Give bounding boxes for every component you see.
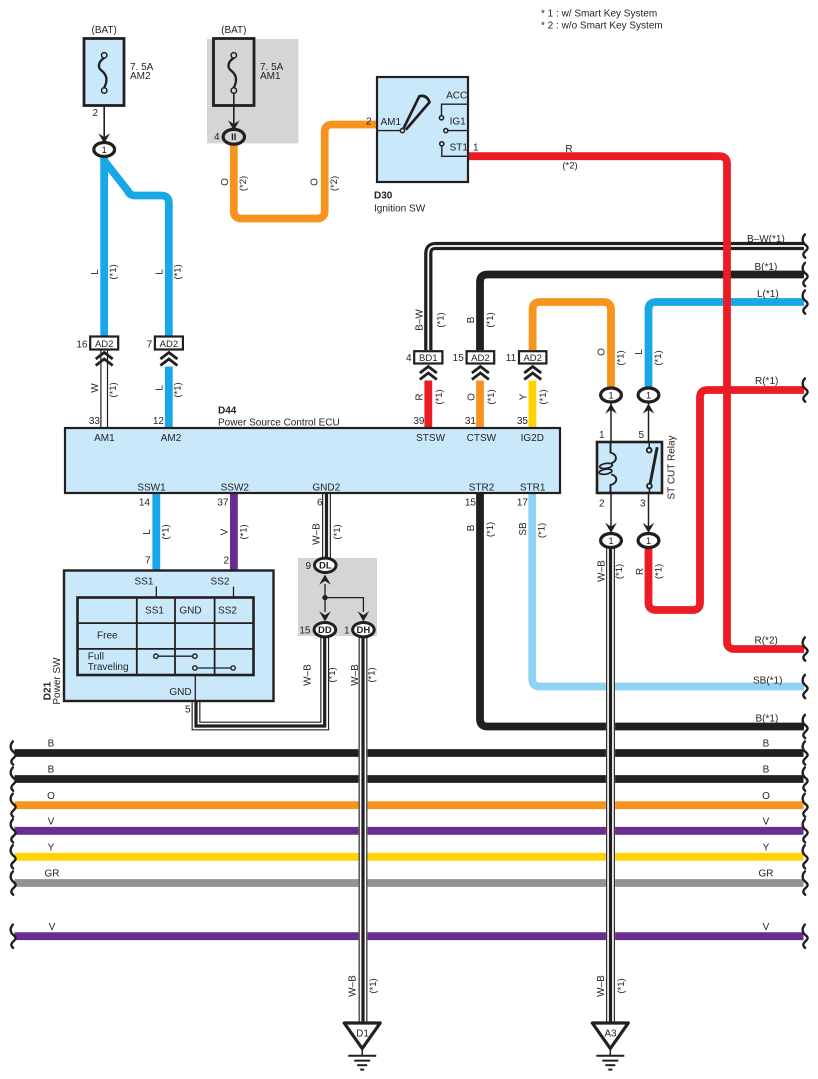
svg-text:* 1 : w/ Smart Key System: * 1 : w/ Smart Key System — [541, 8, 657, 19]
svg-text:B: B — [466, 524, 477, 531]
svg-text:AM1: AM1 — [260, 71, 281, 82]
arrow into connector DH — [358, 611, 370, 621]
wire L fork right branch to 7 AD2 — [105, 162, 169, 338]
svg-text:GR: GR — [45, 869, 60, 880]
connector 15 AD2 — [467, 351, 495, 363]
ignition switch lever (wedge) — [404, 96, 430, 130]
thin lead fuse AM1 to arrow — [233, 93, 235, 124]
svg-text:33: 33 — [89, 416, 101, 427]
continuation braces right edge (upper wires) — [803, 234, 808, 257]
thin branch junction to DH arrow — [325, 598, 363, 612]
svg-text:Y: Y — [519, 393, 530, 400]
svg-text:2: 2 — [599, 499, 605, 510]
svg-text:1: 1 — [608, 390, 613, 401]
connector 16 AD2 — [90, 337, 118, 350]
node oval 1 below relay pin 2 — [601, 534, 622, 548]
svg-text:1: 1 — [473, 143, 479, 154]
svg-text:V: V — [49, 922, 56, 933]
svg-text:1: 1 — [102, 145, 107, 156]
svg-text:V: V — [220, 528, 231, 535]
wire bus Y (row 5) — [15, 853, 804, 861]
contact line SS1-GND (full traveling) — [156, 655, 195, 657]
wire bus O (row 3) — [15, 801, 804, 809]
wire R from right edge R(*1) to oval below relay pin 3 — [649, 390, 805, 610]
fuse 7.5A AM1 box — [214, 39, 255, 106]
svg-text:D44: D44 — [218, 406, 237, 417]
svg-text:ST1: ST1 — [450, 143, 469, 154]
svg-text:1: 1 — [646, 536, 651, 547]
svg-text:(*1): (*1) — [485, 312, 496, 327]
svg-text:W–B: W–B — [303, 664, 314, 686]
wire W-B from connector DD down, left and up to power SW GND pin 5 — [192, 637, 328, 730]
svg-text:(*1): (*1) — [367, 667, 378, 682]
svg-text:7: 7 — [145, 556, 151, 567]
svg-text:W: W — [90, 383, 101, 393]
arrow into oval above relay pin 5 — [643, 404, 655, 414]
svg-text:SS2: SS2 — [211, 577, 230, 588]
svg-text:AD2: AD2 — [523, 353, 541, 364]
svg-text:L: L — [142, 529, 153, 535]
svg-text:SSW2: SSW2 — [221, 483, 250, 494]
svg-text:15: 15 — [453, 353, 465, 364]
svg-text:B: B — [48, 765, 55, 776]
svg-text:V: V — [48, 816, 55, 827]
svg-text:O: O — [220, 178, 231, 186]
svg-text:1: 1 — [599, 430, 605, 441]
svg-text:L: L — [155, 269, 166, 275]
svg-text:B–W(*1): B–W(*1) — [747, 234, 785, 245]
svg-text:(*1): (*1) — [161, 524, 172, 539]
wire bus V (row 7) — [15, 932, 804, 940]
thin branch junction to DD arrow — [324, 598, 326, 612]
svg-text:STSW: STSW — [416, 433, 445, 444]
fuse AM1 element — [229, 58, 237, 88]
wire bus V (row 4) — [15, 827, 804, 835]
fuse AM2 element — [99, 58, 107, 88]
svg-text:(*2): (*2) — [329, 176, 340, 191]
thin lead relay pin 2 to oval — [610, 492, 612, 533]
svg-text:B: B — [763, 765, 770, 776]
svg-text:Full: Full — [88, 652, 104, 663]
ECU D44 box — [65, 428, 560, 493]
svg-text:GND: GND — [179, 606, 201, 617]
connector 7 AD2 — [155, 337, 183, 350]
svg-text:CTSW: CTSW — [467, 433, 497, 444]
svg-text:31: 31 — [465, 416, 477, 427]
svg-text:O: O — [47, 791, 55, 802]
contact line GND-SS2 (full traveling) — [195, 667, 233, 669]
wire Y below AD2 11 to ECU pin 35 — [529, 381, 537, 430]
svg-text:(*1): (*1) — [654, 564, 665, 579]
svg-text:B: B — [466, 316, 477, 323]
svg-text:17: 17 — [517, 498, 529, 509]
svg-text:(*1): (*1) — [108, 264, 119, 279]
svg-text:AM2: AM2 — [130, 71, 151, 82]
thin lead DL arrow to junction — [324, 584, 326, 598]
arrow into oval below relay pin 3 — [643, 523, 655, 533]
ground symbol D1 — [344, 1023, 380, 1049]
power switch contact table — [78, 598, 254, 676]
svg-text:L: L — [90, 269, 101, 275]
svg-text:(BAT): (BAT) — [92, 25, 117, 36]
svg-text:(*1): (*1) — [108, 382, 119, 397]
thin lead relay pin 3 to oval — [648, 492, 650, 533]
svg-text:STR1: STR1 — [520, 483, 546, 494]
svg-text:ST CUT Relay: ST CUT Relay — [667, 435, 678, 499]
svg-text:V: V — [763, 922, 770, 933]
svg-text:D1: D1 — [356, 1029, 369, 1040]
wire V from ECU SSW2 pin 37 to power SW SS2 pin 2 — [230, 492, 238, 572]
wire R from ignition ST1 to right edge R(*2) — [468, 156, 805, 649]
svg-text:B: B — [763, 739, 770, 750]
power switch pin lead SS2 — [233, 587, 235, 599]
svg-text:(*1): (*1) — [614, 564, 625, 579]
svg-text:Traveling: Traveling — [88, 662, 129, 673]
svg-text:(*1): (*1) — [537, 523, 548, 538]
svg-text:* 2 : w/o Smart Key System: * 2 : w/o Smart Key System — [541, 21, 663, 32]
svg-text:R: R — [565, 144, 572, 155]
svg-text:AD2: AD2 — [95, 339, 113, 350]
svg-text:IG2D: IG2D — [521, 433, 544, 444]
svg-text:B(*1): B(*1) — [756, 714, 779, 725]
svg-text:(*1): (*1) — [173, 382, 184, 397]
svg-text:SS1: SS1 — [145, 606, 164, 617]
svg-text:(BAT): (BAT) — [221, 25, 246, 36]
thin lead oval to relay pin 1 — [610, 402, 612, 443]
svg-text:3: 3 — [640, 499, 646, 510]
svg-text:2: 2 — [366, 117, 372, 128]
svg-text:R: R — [415, 393, 426, 400]
svg-text:O: O — [762, 791, 770, 802]
node oval 1 above relay pin 5 — [638, 388, 659, 402]
svg-text:(*1): (*1) — [368, 978, 379, 993]
svg-text:W–B: W–B — [596, 975, 607, 997]
svg-text:B(*1): B(*1) — [755, 262, 778, 273]
svg-text:A3: A3 — [604, 1029, 617, 1040]
wire bus B (row 1) — [15, 749, 804, 757]
ignition contact IG1 — [448, 130, 468, 132]
svg-text:DD: DD — [318, 625, 332, 636]
svg-text:V: V — [763, 816, 770, 827]
wire W-B from ECU GND2 pin 6 to connector DL — [323, 492, 331, 559]
connector 11 AD2 — [519, 351, 546, 363]
svg-text:2: 2 — [92, 108, 98, 119]
gray option panel behind fuse AM1 — [207, 39, 298, 143]
wire O below AD2 15 to ECU pin 31 — [476, 381, 484, 430]
ground symbol A3 — [592, 1023, 628, 1049]
svg-text:(*1): (*1) — [173, 264, 184, 279]
svg-text:15: 15 — [299, 626, 311, 637]
relay coil — [611, 442, 616, 463]
svg-text:(*1): (*1) — [434, 389, 445, 404]
svg-text:SB: SB — [518, 522, 529, 536]
wire L fork from fuse AM2 oval: left branch to 16 AD2 — [100, 155, 108, 338]
svg-text:Y: Y — [48, 842, 55, 853]
svg-text:1: 1 — [344, 626, 350, 637]
arrow into oval below relay pin 2 — [605, 523, 617, 533]
svg-text:4: 4 — [406, 353, 412, 364]
wire bus GR (row 6) — [15, 879, 804, 887]
junction node dot — [322, 595, 327, 600]
svg-text:W–B: W–B — [312, 523, 323, 545]
wire bus B (row 2) — [15, 775, 804, 783]
svg-text:ACC: ACC — [446, 91, 467, 102]
svg-text:(*1): (*1) — [653, 350, 664, 365]
svg-text:(*1): (*1) — [332, 524, 343, 539]
wire B from right edge to connector AD2 pin 15 — [480, 275, 804, 351]
ignition switch pivot lead AM1 — [377, 130, 400, 132]
svg-text:L(*1): L(*1) — [757, 289, 779, 300]
thin lead oval to relay pin 5 — [648, 402, 650, 443]
svg-text:GR: GR — [759, 869, 774, 880]
wire B from ECU STR2 pin 15 to right edge B(*1) — [480, 492, 804, 727]
svg-text:DH: DH — [357, 625, 371, 636]
node oval 1 above relay pin 1 — [601, 388, 622, 402]
wire L from ECU SSW1 pin 14 to power SW SS1 pin 7 — [152, 492, 160, 572]
thin lead fuse AM2 to arrow — [103, 93, 105, 137]
svg-text:GND: GND — [169, 687, 191, 698]
node oval 1 below relay pin 3 — [638, 534, 659, 548]
svg-text:2: 2 — [223, 556, 229, 567]
node oval 1 (fuse AM2 output) — [94, 143, 115, 157]
svg-text:AM1: AM1 — [94, 433, 115, 444]
svg-text:SSW1: SSW1 — [137, 483, 166, 494]
connector DD oval — [314, 623, 336, 637]
arrow into oval 1 (fuse AM2) — [98, 133, 110, 143]
connector DH oval — [353, 623, 375, 637]
svg-text:12: 12 — [153, 416, 165, 427]
svg-text:(*2): (*2) — [562, 161, 577, 172]
svg-text:B: B — [48, 739, 55, 750]
svg-text:GND2: GND2 — [312, 483, 340, 494]
svg-text:(*1): (*1) — [616, 350, 627, 365]
svg-text:O: O — [309, 178, 320, 186]
svg-text:(*2): (*2) — [238, 176, 249, 191]
svg-text:(*1): (*1) — [436, 312, 447, 327]
svg-text:L: L — [155, 385, 166, 391]
svg-text:(*1): (*1) — [485, 522, 496, 537]
svg-text:SB(*1): SB(*1) — [753, 676, 782, 687]
svg-text:AD2: AD2 — [471, 353, 489, 364]
arrow into connector DL — [319, 575, 331, 585]
svg-text:1: 1 — [646, 390, 651, 401]
node oval II (fuse AM1 output) — [223, 129, 244, 144]
connector 4 BD1 — [414, 351, 442, 363]
svg-text:AM1: AM1 — [381, 117, 402, 128]
connector DL oval — [315, 558, 337, 572]
svg-text:35: 35 — [517, 416, 529, 427]
svg-text:39: 39 — [413, 416, 425, 427]
wire W-B from oval below relay pin 2 down to ground A3 — [607, 547, 615, 1022]
wire L from right edge to oval above relay pin 5 — [649, 302, 805, 388]
svg-text:R: R — [635, 568, 646, 575]
wire O fuse AM1 to ignition switch AM1 — [234, 125, 377, 219]
svg-text:BD1: BD1 — [419, 353, 437, 364]
svg-text:5: 5 — [185, 705, 191, 716]
ignition contact ACC — [442, 104, 469, 115]
ST CUT relay box — [597, 442, 662, 493]
continuation braces left edge — [11, 741, 16, 764]
svg-text:1: 1 — [608, 536, 613, 547]
svg-text:DL: DL — [319, 561, 332, 572]
svg-text:(*1): (*1) — [538, 389, 549, 404]
svg-text:O: O — [597, 348, 608, 356]
arrow into oval II (fuse AM1) — [228, 120, 240, 130]
svg-text:SS2: SS2 — [218, 606, 237, 617]
continuation braces right edge (bus) — [803, 741, 808, 764]
svg-text:D30: D30 — [374, 191, 393, 202]
svg-text:W–B: W–B — [350, 664, 361, 686]
svg-text:7: 7 — [147, 340, 153, 351]
power switch D21 box — [64, 571, 274, 702]
svg-text:L: L — [634, 349, 645, 355]
relay switch contacts — [650, 447, 657, 483]
wire B-W from right edge to connector BD1 (black with white stripe) — [428, 246, 804, 350]
svg-text:II: II — [231, 132, 236, 143]
svg-text:(*1): (*1) — [486, 389, 497, 404]
svg-text:Power Source Control ECU: Power Source Control ECU — [218, 418, 340, 429]
svg-text:11: 11 — [506, 353, 517, 364]
svg-text:(*1): (*1) — [616, 978, 627, 993]
svg-text:O: O — [467, 393, 478, 401]
gray option panel behind DL/DD/DH connectors — [298, 558, 377, 636]
svg-text:Power SW: Power SW — [52, 657, 63, 705]
svg-text:9: 9 — [305, 561, 311, 572]
svg-text:Y: Y — [763, 842, 770, 853]
svg-text:W–B: W–B — [348, 975, 359, 997]
svg-text:R(*2): R(*2) — [755, 636, 778, 647]
svg-text:6: 6 — [317, 498, 323, 509]
ignition switch D30 box — [377, 77, 468, 182]
svg-text:Free: Free — [97, 631, 118, 642]
wire W below 16 AD2 to ECU pin 33 (white wire, two thin lines) — [100, 351, 102, 430]
svg-text:4: 4 — [214, 132, 220, 143]
wire SB from ECU STR1 pin 17 to right edge SB(*1) — [532, 492, 804, 687]
wire O from connector AD2 pin 11 to oval above relay pin 1 — [533, 302, 611, 388]
wire W-B from connector DH down to ground D1 — [359, 637, 367, 1022]
power switch pin lead GND — [194, 674, 196, 700]
svg-text:16: 16 — [76, 340, 88, 351]
wire R below BD1 to ECU pin 39 — [424, 381, 432, 430]
arrow into oval above relay pin 1 — [605, 404, 617, 414]
svg-text:37: 37 — [217, 498, 229, 509]
arrow into connector DD — [319, 611, 331, 621]
svg-text:W–B: W–B — [596, 560, 607, 582]
svg-text:AD2: AD2 — [160, 339, 178, 350]
svg-text:5: 5 — [638, 430, 644, 441]
svg-text:14: 14 — [139, 498, 151, 509]
svg-text:IG1: IG1 — [450, 116, 467, 127]
svg-text:STR2: STR2 — [469, 483, 495, 494]
svg-text:SS1: SS1 — [135, 577, 154, 588]
svg-text:B–W: B–W — [415, 309, 426, 331]
svg-text:(*1): (*1) — [239, 524, 250, 539]
ignition contact ST1 — [442, 146, 468, 156]
fuse 7.5A AM2 box — [84, 39, 124, 106]
wire L below 7 AD2 to ECU pin 12 — [165, 367, 173, 430]
svg-text:(*1): (*1) — [327, 667, 338, 682]
svg-text:R(*1): R(*1) — [755, 376, 778, 387]
svg-text:AM2: AM2 — [161, 433, 182, 444]
svg-text:15: 15 — [465, 498, 477, 509]
power switch pin lead SS1 — [155, 587, 157, 599]
svg-text:Ignition SW: Ignition SW — [374, 204, 426, 215]
